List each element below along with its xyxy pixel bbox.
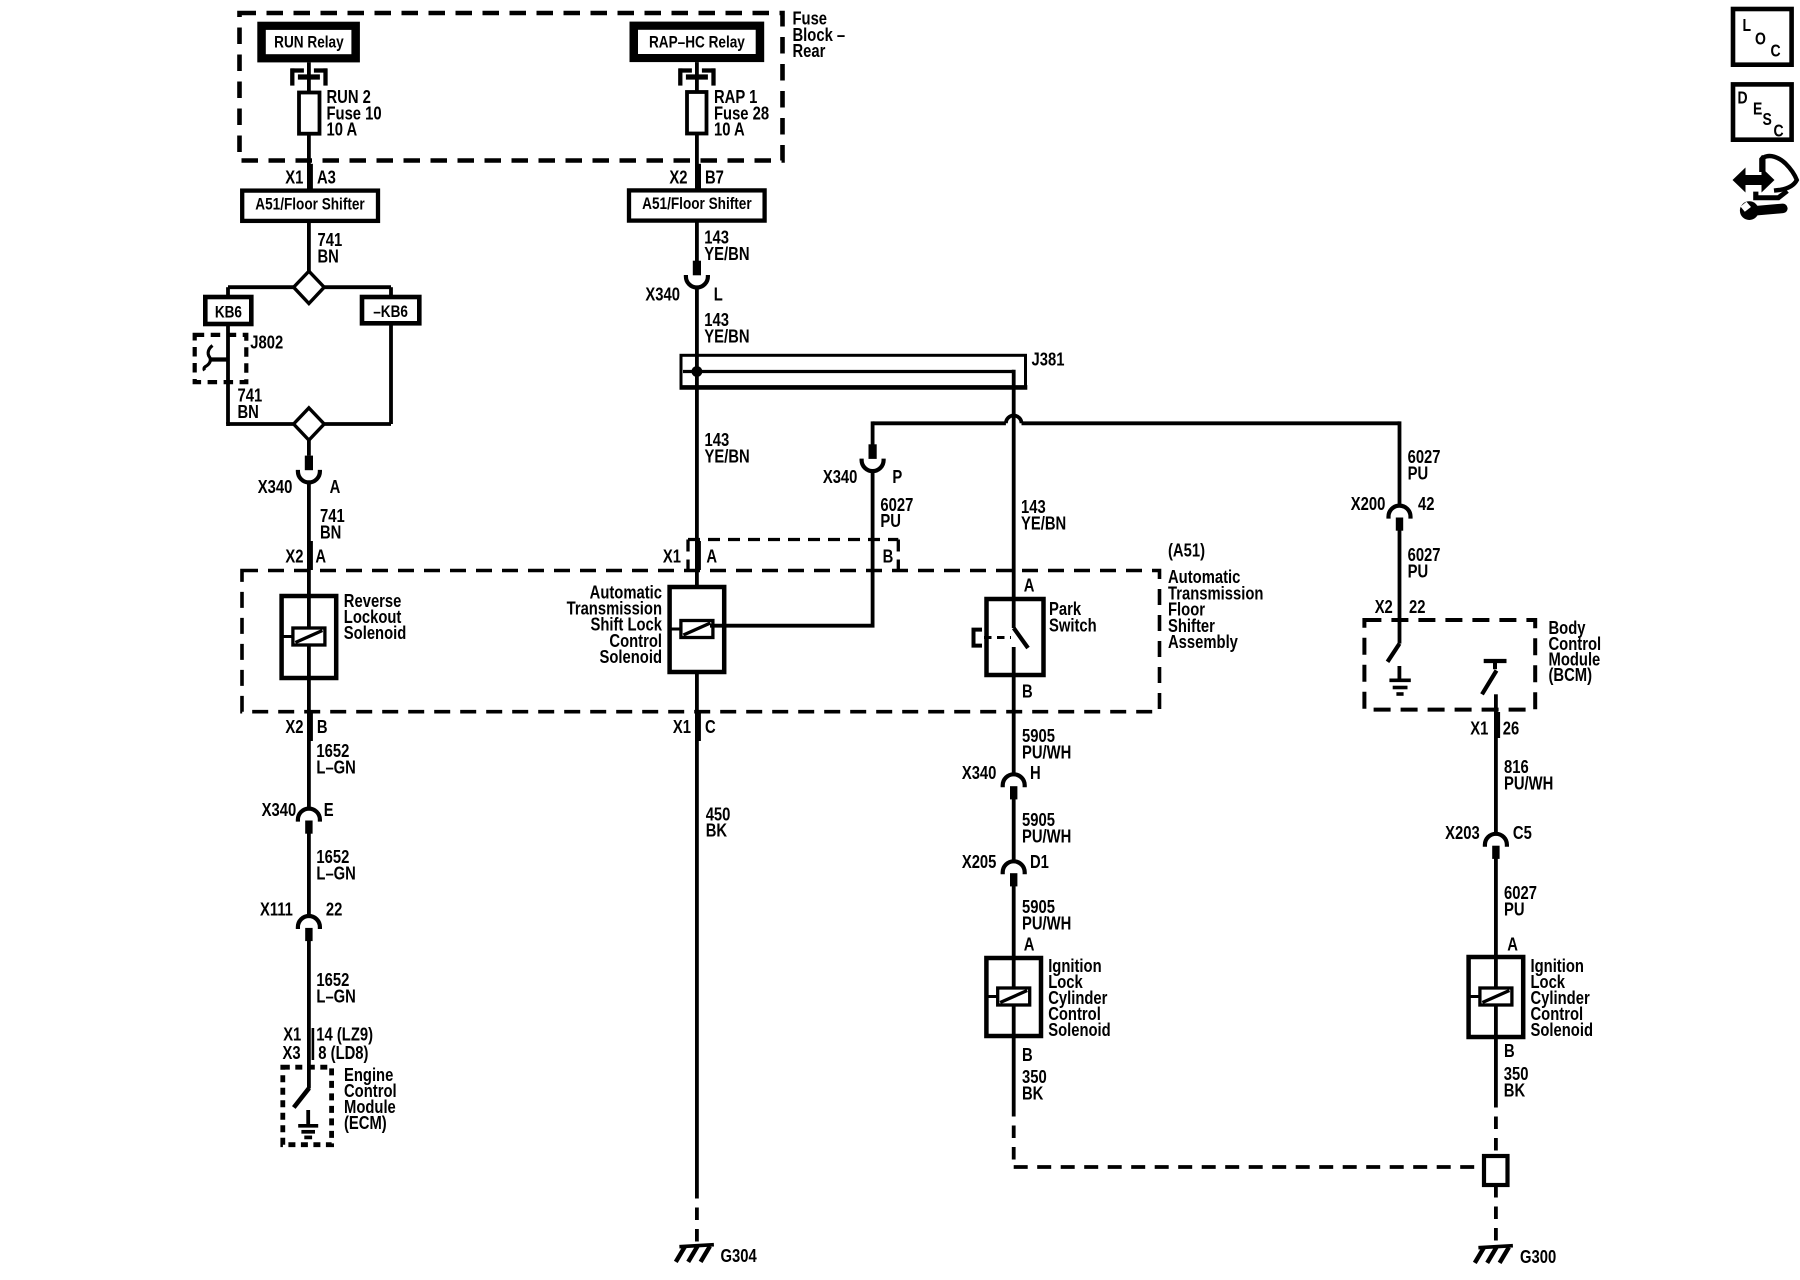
label G304 (721, 1245, 758, 1266)
label 143 YE/BN right drop (1021, 496, 1066, 533)
svg-text:RAP–HC Relay: RAP–HC Relay (649, 33, 745, 52)
ground G304 (676, 1245, 714, 1262)
jumper squiggle symbol (204, 346, 228, 371)
icon LOC box (1733, 9, 1792, 65)
svg-text:X2: X2 (669, 167, 687, 188)
svg-text:YE/BN: YE/BN (705, 446, 750, 467)
label 6027 PU right (1408, 446, 1441, 483)
label 741 BN (318, 229, 343, 266)
label 5905 PU/WH mid (1022, 809, 1071, 846)
svg-text:PU: PU (880, 510, 901, 531)
pin label A park switch (1024, 575, 1035, 596)
pin label B ignition solenoid right (1504, 1040, 1515, 1061)
label Fuse Block - Rear (793, 8, 846, 62)
svg-text:22: 22 (1409, 596, 1425, 617)
svg-text:RUN Relay: RUN Relay (274, 33, 344, 52)
svg-text:BN: BN (320, 522, 341, 543)
svg-text:C: C (705, 716, 716, 737)
relay K RUN Relay (257, 22, 360, 63)
svg-text:PU/WH: PU/WH (1022, 742, 1071, 763)
splice diamond upper (294, 271, 325, 303)
svg-text:Assembly: Assembly (1168, 632, 1239, 653)
svg-text:C: C (1774, 122, 1784, 141)
label G300 (1520, 1246, 1556, 1267)
svg-text:X2: X2 (285, 546, 303, 567)
label X205 D1 (962, 851, 1049, 872)
option box -KB6 (362, 297, 419, 323)
svg-text:YE/BN: YE/BN (704, 326, 749, 347)
svg-text:A3: A3 (317, 167, 336, 188)
svg-text:P: P (892, 466, 902, 487)
svg-text:D1: D1 (1030, 851, 1049, 872)
BCM input switch blade to ground (1388, 620, 1400, 662)
svg-text:X340: X340 (823, 466, 858, 487)
inline connector X340 pin A (298, 456, 320, 483)
svg-text:KB6: KB6 (215, 303, 242, 322)
wire 741 BN from A51 to splice diamond (307, 221, 311, 272)
svg-text:Solenoid: Solenoid (600, 646, 662, 667)
label 1652 L-GN lower (316, 969, 355, 1006)
pin label X1 A3 (285, 164, 336, 191)
svg-text:22: 22 (326, 899, 342, 920)
label 741 BN on KB6 branch (238, 385, 263, 422)
svg-text:A: A (1024, 575, 1035, 596)
svg-text:X340: X340 (262, 799, 297, 820)
inline connector X205 pin D1 (1003, 861, 1025, 886)
svg-text:S: S (1763, 111, 1772, 130)
svg-text:X1: X1 (285, 167, 303, 188)
dashed wire splice to G300 (1494, 1185, 1498, 1242)
svg-text:G300: G300 (1520, 1246, 1556, 1267)
ECM internal earth ground (298, 1110, 318, 1137)
svg-text:8 (LD8): 8 (LD8) (318, 1042, 368, 1063)
RAP-HC relay terminal bracket (679, 68, 715, 85)
label X340 H (962, 762, 1041, 783)
svg-text:B: B (1504, 1040, 1515, 1061)
splice diamond lower (228, 408, 391, 440)
jumper J802 dashed box (195, 335, 247, 382)
wire branch to KB6 (228, 287, 295, 297)
pin label X1 26 (1470, 712, 1519, 739)
svg-text:X340: X340 (962, 762, 997, 783)
inline connector X200 pin 42 (1389, 506, 1411, 531)
ignition lock cylinder control solenoid left L (986, 958, 1041, 1036)
svg-text:BN: BN (238, 401, 259, 422)
label Automatic Transmission Shift Lock Control Solenoid (567, 582, 663, 667)
svg-text:PU: PU (1504, 899, 1525, 920)
svg-text:PU: PU (1408, 561, 1429, 582)
svg-text:PU/WH: PU/WH (1504, 773, 1553, 794)
label 6027 PU (880, 494, 913, 531)
svg-text:YE/BN: YE/BN (704, 243, 749, 264)
dashed wire to G304 (695, 1186, 699, 1243)
relay K RAP-HC Relay (630, 22, 765, 63)
svg-text:Solenoid: Solenoid (344, 622, 406, 643)
svg-text:L–GN: L–GN (316, 757, 355, 778)
fuse RUN 2 Fuse 10 10A (299, 93, 320, 134)
inline connector X340 pin H (1003, 774, 1025, 799)
svg-text:PU: PU (1408, 463, 1429, 484)
reverse lockout solenoid L (282, 571, 337, 712)
svg-text:BK: BK (1504, 1080, 1525, 1101)
pin label X3 8 (LD8) (282, 1042, 368, 1063)
svg-text:L: L (714, 284, 723, 305)
svg-text:A: A (706, 546, 717, 567)
label X111 22 (260, 899, 342, 920)
label Reverse Lockout Solenoid (344, 590, 406, 643)
svg-text:(BCM): (BCM) (1549, 664, 1593, 685)
wire RAP relay to fuse (695, 62, 699, 92)
svg-text:PU/WH: PU/WH (1022, 913, 1071, 934)
svg-text:L: L (1743, 17, 1752, 36)
label 143 YE/BN third (705, 429, 750, 466)
wire 143 YE/BN J381 to solenoid (695, 372, 699, 588)
svg-text:10 A: 10 A (327, 119, 358, 140)
label X340 P (823, 466, 902, 487)
svg-text:A: A (315, 546, 326, 567)
svg-text:X1: X1 (1470, 718, 1488, 739)
fuse RAP 1 Fuse 28 10A (687, 92, 707, 134)
label 6027 PU lower right (1504, 882, 1537, 919)
svg-text:L–GN: L–GN (316, 986, 355, 1007)
ignition lock cylinder control solenoid right L (1469, 957, 1524, 1037)
svg-text:PU/WH: PU/WH (1022, 826, 1071, 847)
label 816 PU/WH (1504, 756, 1553, 793)
svg-text:H: H (1030, 762, 1041, 783)
icon navigation arrows and wrench (1733, 155, 1797, 220)
label 6027 PU to BCM (1408, 544, 1441, 581)
svg-text:X340: X340 (645, 284, 680, 305)
label 5905 PU/WH (1022, 725, 1071, 762)
svg-text:YE/BN: YE/BN (1021, 513, 1066, 534)
wire -KB6 branch down (389, 323, 393, 424)
wire 5905 PU/WH to X205 (1012, 799, 1016, 861)
wire 1652 L-GN to X340-E (307, 712, 311, 809)
svg-text:B: B (1022, 1044, 1033, 1065)
label (A51) Automatic Transmission Floor Shifter Assembly (1168, 540, 1263, 653)
svg-text:X205: X205 (962, 851, 997, 872)
svg-text:26: 26 (1503, 718, 1519, 739)
svg-text:Solenoid: Solenoid (1048, 1019, 1110, 1040)
automatic transmission shift lock control solenoid L (670, 587, 725, 672)
label 1652 L-GN (316, 740, 355, 777)
label X340 A (258, 476, 341, 497)
wire branch to -KB6 (323, 287, 391, 297)
svg-text:C: C (1771, 42, 1781, 61)
svg-text:(A51): (A51) (1168, 540, 1205, 561)
connector X1 dashed pin box A B (688, 540, 898, 570)
wire 6027 PU to BCM X2-22 (1398, 530, 1402, 620)
svg-text:A51/Floor Shifter: A51/Floor Shifter (255, 195, 364, 214)
wire 143 YE/BN from A51 to X340-L (695, 221, 699, 262)
engine control module dashed box (283, 1067, 332, 1145)
fuse block - rear dashed enclosure (240, 13, 783, 161)
label Engine Control Module (ECM) (344, 1064, 397, 1133)
inline connector X111 pin 22 (298, 916, 320, 941)
label 5905 PU/WH lower (1022, 896, 1071, 933)
wire horizontal bus with hop over 143 YE/BN (873, 415, 1400, 423)
splice pack J381 (680, 355, 1028, 387)
label RUN 2 Fuse 10 10 A (327, 86, 382, 139)
label X340 L (645, 284, 722, 305)
inline connector X340 pin E (298, 809, 320, 834)
svg-text:J381: J381 (1032, 349, 1065, 370)
RUN relay terminal bracket (291, 68, 327, 85)
svg-text:B7: B7 (705, 167, 724, 188)
pin label A ignition solenoid right (1507, 934, 1518, 955)
svg-text:C5: C5 (1513, 822, 1532, 843)
connector box A51/Floor Shifter left (242, 191, 378, 221)
label 1652 L-GN mid (316, 846, 355, 883)
svg-text:X340: X340 (258, 476, 293, 497)
svg-text:B: B (317, 716, 328, 737)
label X203 C5 (1445, 822, 1532, 843)
svg-text:O: O (1755, 30, 1766, 49)
svg-text:(ECM): (ECM) (344, 1112, 387, 1133)
wire fuse RAP1 to A51 X2-B7 (695, 134, 699, 191)
svg-text:L–GN: L–GN (316, 863, 355, 884)
wire 5905 PU/WH to X340-H (1012, 675, 1016, 774)
pin label X2 22 (1375, 596, 1426, 617)
wire fuse RUN2 to A51 X1-A3 (307, 134, 311, 191)
label 350 BK left (1022, 1066, 1047, 1103)
svg-text:X203: X203 (1445, 822, 1480, 843)
label 143 YE/BN (704, 227, 749, 264)
svg-text:G304: G304 (721, 1245, 758, 1266)
label X340 E (262, 799, 334, 820)
wire 143 YE/BN to J381 (695, 286, 699, 371)
svg-text:Rear: Rear (793, 41, 826, 62)
wire 6027 PU to ignition solenoid right (1494, 859, 1498, 958)
label Body Control Module (BCM) (1549, 617, 1602, 685)
pin label A ignition solenoid left (1024, 934, 1035, 955)
svg-text:42: 42 (1418, 493, 1434, 514)
wire 143 YE/BN J381 right drop (1012, 370, 1016, 599)
pin label B ignition solenoid left (1022, 1044, 1033, 1065)
label 350 BK right (1504, 1063, 1529, 1100)
connector box A51/Floor Shifter center (629, 190, 765, 220)
pin label X1 C (673, 713, 716, 741)
wire 741 BN to shifter X2-A (307, 481, 311, 570)
svg-text:A: A (1024, 934, 1035, 955)
svg-text:10 A: 10 A (714, 119, 745, 140)
BCM internal earth ground (1389, 666, 1410, 694)
svg-text:E: E (324, 799, 334, 820)
pin label X1 14 (LZ9) (283, 1024, 373, 1060)
label Ignition Lock Cylinder Control Solenoid right (1531, 955, 1593, 1040)
pin label X1 A (663, 541, 717, 570)
label 143 YE/BN second (704, 309, 749, 346)
label Ignition Lock Cylinder Control Solenoid left (1048, 955, 1110, 1040)
svg-text:X2: X2 (285, 716, 303, 737)
label Park Switch (1049, 598, 1097, 635)
inline connector X340 pin P (862, 444, 884, 471)
splice junction square (1484, 1156, 1508, 1185)
svg-text:X111: X111 (260, 899, 293, 920)
svg-text:–KB6: –KB6 (373, 303, 408, 322)
wire diamond to connector X340-A (307, 440, 311, 456)
wire 450 BK down (695, 672, 699, 1186)
body control module dashed box (1364, 620, 1535, 710)
A51 shifter assembly dashed enclosure (242, 571, 1160, 712)
icon DESC box (1733, 84, 1792, 140)
svg-text:B: B (1022, 681, 1033, 702)
label 450 BK (706, 804, 731, 841)
wire 5905 PU/WH to solenoid A (1012, 886, 1016, 958)
svg-text:BN: BN (318, 246, 339, 267)
wire 6027 PU to solenoid pin B (710, 470, 875, 626)
svg-text:E: E (1753, 100, 1762, 119)
svg-text:X2: X2 (1375, 596, 1393, 617)
pin label B (883, 546, 894, 567)
wire 1652 L-GN to X111 (307, 834, 311, 916)
wire 350 BK right solid (1494, 1037, 1498, 1095)
svg-text:B: B (883, 546, 894, 567)
dashed wire 350 BK to splice square (1494, 1095, 1498, 1156)
svg-text:D: D (1738, 89, 1748, 108)
wire 350 BK left solid (1012, 1036, 1016, 1104)
wire KB6 through J802 (226, 324, 230, 424)
wire 816 PU/WH to X203 (1494, 711, 1498, 834)
label X200 42 (1351, 493, 1435, 514)
wire 6027 PU corner down to X200 (1398, 421, 1402, 505)
svg-text:BK: BK (1022, 1083, 1043, 1104)
wire corner down to X340-P (871, 421, 875, 445)
pin label X2 B (285, 713, 327, 741)
pin label X2 A (285, 541, 326, 570)
wire RUN relay to fuse (307, 62, 311, 92)
svg-text:Solenoid: Solenoid (1531, 1019, 1593, 1040)
dashed wire 350 BK to splice (1014, 1104, 1484, 1167)
option box KB6 (205, 297, 251, 324)
wire BCM output to X1-26 (1494, 694, 1498, 711)
svg-text:A: A (1507, 934, 1518, 955)
svg-text:X200: X200 (1351, 493, 1386, 514)
svg-text:A: A (330, 476, 341, 497)
label J381 (1032, 349, 1065, 370)
ground G300 (1475, 1246, 1513, 1263)
svg-text:J802: J802 (250, 332, 283, 353)
svg-text:A51/Floor Shifter: A51/Floor Shifter (642, 195, 751, 214)
svg-text:X1: X1 (673, 716, 691, 737)
svg-text:BK: BK (706, 820, 727, 841)
label 741 BN below X340-A (320, 505, 345, 542)
pin label B park switch (1022, 681, 1033, 702)
pin label X2 B7 (669, 164, 724, 191)
inline connector X203 pin C5 (1485, 834, 1507, 859)
label J802 (250, 332, 283, 353)
BCM output switch contact (1482, 661, 1507, 694)
svg-text:X1: X1 (663, 546, 681, 567)
wire 1652 L-GN to ECM (307, 941, 311, 1089)
svg-text:X3: X3 (282, 1042, 300, 1063)
svg-text:Switch: Switch (1049, 615, 1097, 636)
park switch S (974, 599, 1044, 675)
ECM internal switch blade (294, 1088, 309, 1107)
inline connector X340 pin L (686, 261, 708, 288)
label RAP 1 Fuse 28 10 A (714, 86, 769, 139)
